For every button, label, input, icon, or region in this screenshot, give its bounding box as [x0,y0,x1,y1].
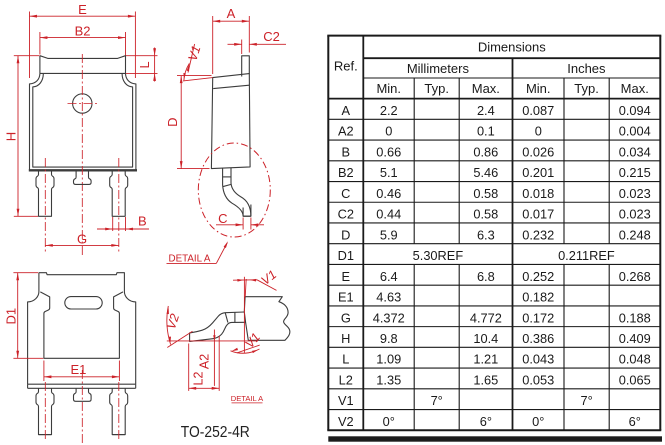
svg-text:5.46: 5.46 [473,165,498,180]
svg-text:0.026: 0.026 [522,144,554,159]
svg-text:0.065: 0.065 [619,372,651,387]
svg-text:E: E [342,269,351,284]
svg-text:6°: 6° [480,414,492,429]
svg-text:DETAIL A: DETAIL A [231,394,264,403]
svg-text:0.58: 0.58 [473,186,498,201]
svg-text:1.21: 1.21 [473,352,498,367]
svg-text:2.4: 2.4 [477,103,495,118]
svg-text:0.409: 0.409 [619,331,651,346]
svg-text:V1: V1 [338,393,354,408]
svg-text:0.58: 0.58 [473,207,498,222]
svg-text:0°: 0° [532,414,544,429]
svg-text:E: E [78,2,87,17]
svg-text:4.772: 4.772 [470,310,502,325]
svg-text:0.188: 0.188 [619,310,651,325]
svg-text:E1: E1 [70,362,86,377]
svg-text:0.46: 0.46 [376,186,401,201]
svg-text:C2: C2 [338,207,354,222]
svg-text:Max.: Max. [621,81,649,96]
svg-text:1.35: 1.35 [376,372,401,387]
svg-text:E1: E1 [338,290,354,305]
svg-text:0.44: 0.44 [376,207,401,222]
svg-text:H: H [341,331,350,346]
svg-text:V1: V1 [185,44,203,63]
svg-text:Ref.: Ref. [334,59,358,74]
svg-text:C: C [218,211,227,226]
svg-text:0.201: 0.201 [522,165,554,180]
svg-text:6.8: 6.8 [477,269,495,284]
svg-text:0.268: 0.268 [619,269,651,284]
svg-text:B2: B2 [338,165,354,180]
svg-text:0.211REF: 0.211REF [558,248,615,263]
svg-text:B2: B2 [75,23,91,38]
svg-text:0.86: 0.86 [473,144,498,159]
svg-text:6.4: 6.4 [380,269,398,284]
svg-text:0.023: 0.023 [619,186,651,201]
svg-text:0.215: 0.215 [619,165,651,180]
svg-text:5.1: 5.1 [380,165,398,180]
svg-text:V1: V1 [242,330,263,351]
svg-text:7°: 7° [580,393,592,408]
svg-text:V2: V2 [338,414,354,429]
svg-text:H: H [4,132,19,141]
svg-text:D1: D1 [338,248,354,263]
svg-text:0.087: 0.087 [522,103,554,118]
svg-text:10.4: 10.4 [473,331,498,346]
svg-text:0.004: 0.004 [619,124,651,139]
svg-text:TO-252-4R: TO-252-4R [181,424,250,441]
svg-text:0: 0 [535,124,542,139]
svg-text:0.248: 0.248 [619,227,651,242]
svg-text:5.30REF: 5.30REF [413,248,464,263]
svg-text:L: L [138,61,152,68]
svg-text:4.372: 4.372 [373,310,405,325]
svg-text:D1: D1 [3,308,18,325]
svg-text:0.1: 0.1 [477,124,495,139]
svg-text:B: B [342,144,351,159]
svg-text:0.232: 0.232 [522,227,554,242]
svg-text:0.66: 0.66 [376,144,401,159]
svg-text:L2: L2 [192,372,206,386]
svg-text:0.043: 0.043 [522,352,554,367]
svg-text:A: A [342,103,351,118]
svg-text:L2: L2 [339,372,353,387]
svg-text:Inches: Inches [567,61,606,76]
svg-text:0.182: 0.182 [522,290,554,305]
svg-text:C2: C2 [263,29,280,44]
svg-text:0.023: 0.023 [619,207,651,222]
svg-text:0.386: 0.386 [522,331,554,346]
svg-text:D: D [165,118,180,127]
svg-text:2.2: 2.2 [380,103,398,118]
svg-text:1.09: 1.09 [376,352,401,367]
svg-text:A: A [227,6,236,21]
svg-text:0: 0 [385,124,392,139]
svg-text:DETAIL A: DETAIL A [169,253,211,264]
svg-text:5.9: 5.9 [380,227,398,242]
svg-text:1.65: 1.65 [473,372,498,387]
svg-text:6°: 6° [629,414,641,429]
svg-text:Typ.: Typ. [424,81,449,96]
svg-text:0.048: 0.048 [619,352,651,367]
svg-text:B: B [138,214,147,229]
svg-text:0.094: 0.094 [619,103,651,118]
svg-text:0.017: 0.017 [522,207,554,222]
svg-text:Millimeters: Millimeters [407,61,470,76]
svg-text:Min.: Min. [376,81,401,96]
svg-text:A2: A2 [338,124,354,139]
svg-text:0.172: 0.172 [522,310,554,325]
svg-text:A2: A2 [198,354,212,369]
svg-text:Max.: Max. [472,81,500,96]
svg-text:Min.: Min. [526,81,551,96]
svg-text:0.252: 0.252 [522,269,554,284]
svg-text:0°: 0° [383,414,395,429]
svg-text:C: C [341,186,350,201]
svg-text:Dimensions: Dimensions [478,40,546,55]
svg-text:Typ.: Typ. [574,81,599,96]
svg-text:L: L [342,352,349,367]
svg-text:G: G [341,310,351,325]
svg-text:0.053: 0.053 [522,372,554,387]
svg-text:9.8: 9.8 [380,331,398,346]
svg-text:6.3: 6.3 [477,227,495,242]
svg-text:G: G [77,231,87,246]
svg-text:D: D [341,227,350,242]
svg-text:0.018: 0.018 [522,186,554,201]
svg-text:V1: V1 [259,267,280,287]
svg-text:7°: 7° [431,393,443,408]
svg-text:4.63: 4.63 [376,290,401,305]
svg-text:0.034: 0.034 [619,144,651,159]
